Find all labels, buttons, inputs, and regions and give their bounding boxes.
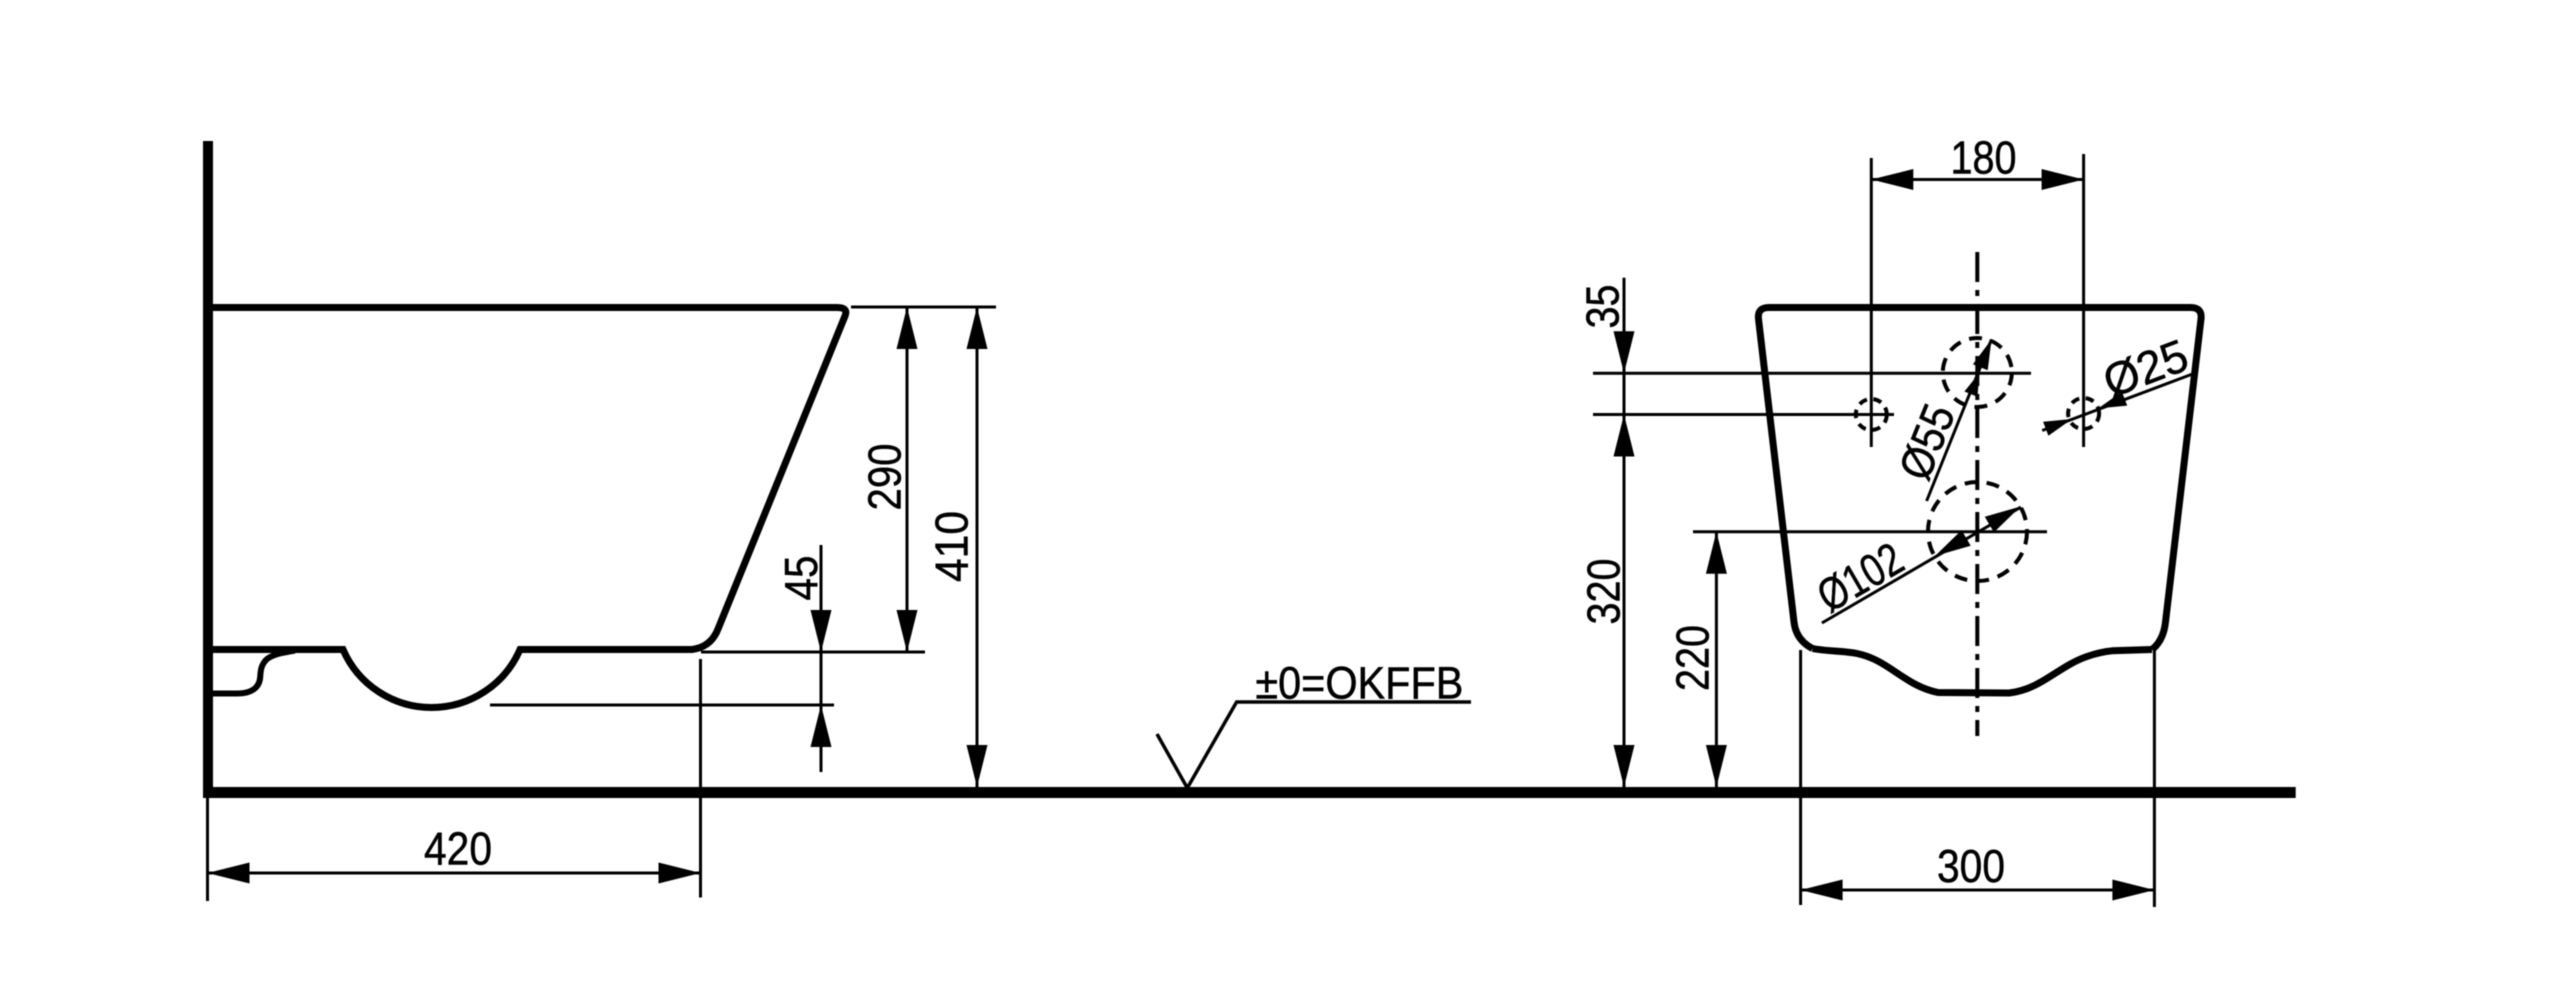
svg-text:290: 290 <box>859 444 911 511</box>
svg-text:220: 220 <box>1667 625 1719 691</box>
svg-text:300: 300 <box>1937 840 2005 892</box>
svg-text:320: 320 <box>1578 559 1630 625</box>
svg-text:420: 420 <box>424 823 492 875</box>
svg-text:410: 410 <box>926 511 978 582</box>
svg-text:35: 35 <box>1577 285 1629 329</box>
svg-text:45: 45 <box>775 556 827 601</box>
svg-text:±0=OKFFB: ±0=OKFFB <box>1255 658 1463 709</box>
svg-text:180: 180 <box>1951 132 2017 184</box>
